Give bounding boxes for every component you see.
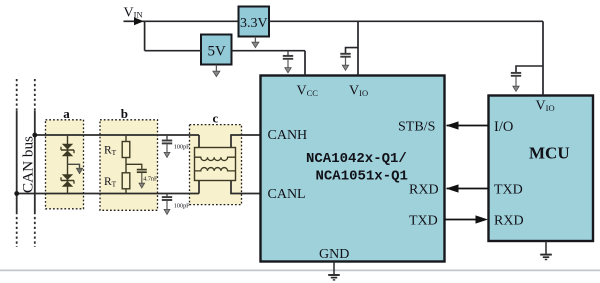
svg-text:100pF: 100pF — [174, 203, 190, 210]
wire MCU TXD to RXD — [447, 188, 489, 190]
ground symbol (U1 GND) — [328, 262, 340, 280]
svg-text:CANL: CANL — [268, 187, 306, 202]
protection box a — [46, 106, 84, 209]
junction dot CANH bus — [32, 133, 37, 138]
termination box b — [100, 106, 158, 210]
svg-text:5V: 5V — [208, 43, 227, 59]
svg-text:GND: GND — [319, 247, 349, 262]
wire VIN branch down — [144, 21, 146, 50]
choke winding bottom — [195, 168, 236, 171]
svg-text:CAN bus: CAN bus — [20, 136, 37, 193]
svg-text:RXD: RXD — [409, 183, 439, 198]
wire MCU I/O to STB/S — [447, 125, 489, 127]
svg-text:VIN: VIN — [124, 5, 143, 20]
ground arrow (3.3V regulator) — [252, 37, 259, 48]
svg-text:TXD: TXD — [494, 183, 523, 198]
wire down to U1 VCC — [304, 51, 306, 76]
wire CANL jog down out of choke — [231, 181, 261, 194]
capacitor C3 (MCU VIO bypass) — [511, 66, 543, 91]
capacitor 100pF (CANL) — [162, 194, 172, 215]
wire to 5V input — [145, 50, 201, 52]
ground tap arrow (box a) — [68, 164, 83, 173]
TVS diode D1 (bidirectional) — [61, 144, 74, 156]
divider wire (box b) — [125, 135, 127, 194]
wire CANH jog up out of choke — [231, 135, 261, 148]
TVS string wire (box a) — [67, 135, 69, 194]
svg-text:NCA1051x-Q1: NCA1051x-Q1 — [316, 169, 408, 185]
wire CANH — [35, 134, 199, 136]
TVS diode D2 (bidirectional) — [61, 174, 74, 186]
wire 5V output — [232, 50, 306, 52]
wire CANL — [17, 193, 199, 195]
CAN bus line CANL (left) — [16, 79, 18, 247]
regulator 3.3V — [239, 7, 270, 37]
common-mode choke L1 body — [195, 148, 236, 181]
junction dot CANL bus — [14, 191, 19, 196]
arrow into STB/S — [446, 121, 459, 129]
wire down to MCU VIO — [542, 21, 544, 95]
wire down to U1 VIO — [357, 21, 359, 75]
svg-text:STB/S: STB/S — [398, 120, 435, 135]
VIN input arrow — [124, 20, 136, 22]
wire CANH jog down into choke — [198, 135, 200, 148]
CAN bus line CANH (right) — [34, 79, 36, 247]
wire CANL jog up into choke — [198, 181, 200, 194]
svg-text:c: c — [213, 111, 219, 126]
choke winding top — [195, 157, 236, 160]
ground arrow (5V regulator) — [213, 65, 220, 77]
svg-text:I/O: I/O — [494, 119, 513, 135]
bottom horizontal rule — [0, 269, 600, 271]
svg-text:NCA1042x-Q1/: NCA1042x-Q1/ — [306, 151, 407, 167]
regulator 5V — [201, 35, 232, 65]
capacitor C2 (U1 VIO bypass) — [340, 48, 358, 71]
wire VIN to 3.3V — [142, 20, 239, 22]
transceiver U1 NCA1042x-Q1/NCA1051x-Q1 — [261, 76, 445, 262]
MCU U2 — [489, 96, 594, 242]
svg-text:4.7nF: 4.7nF — [143, 176, 158, 183]
arrow into RXD — [446, 184, 459, 192]
capacitor C1 (VCC bypass) — [283, 51, 293, 73]
svg-text:MCU: MCU — [529, 144, 570, 163]
resistor RT2 — [122, 173, 130, 189]
ground symbol (MCU GND) — [540, 241, 552, 260]
svg-text:TXD: TXD — [409, 214, 438, 229]
svg-text:a: a — [63, 106, 70, 121]
svg-text:CANH: CANH — [268, 128, 308, 143]
wire U1 TXD to MCU RXD — [445, 219, 477, 221]
wire 3.3V output to MCU — [269, 20, 543, 22]
svg-text:100pF: 100pF — [174, 144, 190, 151]
capacitor 100pF (CANH) — [162, 135, 172, 157]
resistor RT1 — [122, 142, 130, 158]
capacitor 4.7nF (box b) — [126, 164, 147, 188]
svg-text:RXD: RXD — [494, 214, 524, 229]
svg-text:3.3V: 3.3V — [240, 16, 268, 31]
svg-text:b: b — [121, 106, 128, 121]
arrow into MCU RXD — [476, 215, 489, 223]
choke box c — [190, 111, 242, 205]
